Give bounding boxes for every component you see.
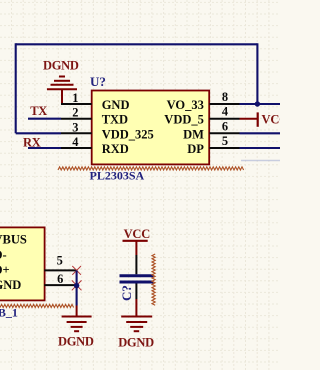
svg-text:VDD_325: VDD_325 <box>102 127 154 141</box>
pin 3 stub (VDD_325) <box>61 132 92 134</box>
pin 2 stub (TXD) <box>61 118 92 120</box>
compile-error squiggle under USB_1 <box>0 304 74 307</box>
svg-text:DP: DP <box>187 142 204 156</box>
power port VCC bar <box>257 112 259 126</box>
power stem VCC down <box>135 241 137 255</box>
svg-text:VCC: VCC <box>124 227 151 241</box>
junction: pin 6 / vertical wire <box>74 283 79 288</box>
capacitor C? top plate <box>120 274 154 277</box>
compile-error squiggle under U? <box>58 167 244 170</box>
svg-text:5: 5 <box>57 254 63 268</box>
pin 8 stub (VO_33) <box>209 103 239 105</box>
svg-text:D-: D- <box>0 248 7 262</box>
svg-text:U?: U? <box>90 74 106 89</box>
ground stem (left DGND) <box>76 306 78 317</box>
pin 4 stub (RXD) <box>61 147 92 149</box>
capacitor C? bottom pin <box>135 284 137 300</box>
svg-text:4: 4 <box>222 105 228 119</box>
svg-text:USB_1: USB_1 <box>0 306 18 320</box>
faint guide line right of DP <box>241 160 280 162</box>
wire pin8 to junction <box>240 103 257 105</box>
svg-text:DGND: DGND <box>58 334 94 348</box>
svg-text:VBUS: VBUS <box>0 233 27 247</box>
svg-text:5: 5 <box>222 134 228 148</box>
svg-text:RXD: RXD <box>102 142 129 156</box>
capacitor C? top pin <box>135 255 137 274</box>
wire DP to sheet edge <box>240 147 281 149</box>
wire: net VO_33 right vertical down to pin 8 <box>256 43 258 104</box>
svg-text:D+: D+ <box>0 263 10 277</box>
connector USB_1 body (clipped at left sheet edge) <box>0 227 45 300</box>
svg-text:TX: TX <box>30 104 47 118</box>
pin 5 stub (DP) <box>209 147 239 149</box>
svg-text:4: 4 <box>72 135 78 149</box>
svg-text:DM: DM <box>183 127 204 141</box>
wire pin6 down to ground <box>76 285 78 305</box>
svg-text:VDD_5: VDD_5 <box>164 113 204 127</box>
compile-error squiggle right of C? <box>152 254 155 305</box>
svg-text:DGND: DGND <box>43 59 79 73</box>
pin 1 stub (GND) <box>61 103 92 105</box>
wire DM to sheet edge <box>240 132 281 134</box>
pin 6 stub (connector) <box>44 284 76 286</box>
wire: net VO_33 top horizontal <box>16 43 258 45</box>
wire pin5 down to pin6 <box>76 270 78 285</box>
capacitor C? bottom plate <box>120 281 154 284</box>
svg-text:TXD: TXD <box>102 113 128 127</box>
svg-text:6: 6 <box>222 119 228 133</box>
svg-text:8: 8 <box>222 90 228 104</box>
svg-text:C?: C? <box>119 285 134 301</box>
pin 6 stub (DM) <box>209 132 239 134</box>
no-ERC cross at pin 6 <box>72 280 82 290</box>
wire net TX <box>28 118 61 120</box>
svg-text:3: 3 <box>72 120 78 134</box>
svg-text:GND: GND <box>0 278 21 292</box>
pin 5 stub (connector) <box>44 269 76 271</box>
pin 4 stub (VDD_5) <box>209 118 239 120</box>
svg-text:RX: RX <box>23 135 41 149</box>
svg-text:2: 2 <box>72 106 78 120</box>
svg-text:DGND: DGND <box>118 335 154 349</box>
ground DGND bottom-left <box>62 317 92 332</box>
svg-text:1: 1 <box>72 91 78 105</box>
svg-text:GND: GND <box>102 98 130 112</box>
wire net RX <box>28 147 61 149</box>
IC U? PL2303SA body <box>92 91 210 165</box>
svg-text:VCC: VCC <box>262 113 281 127</box>
svg-text:VO_33: VO_33 <box>167 98 204 112</box>
junction: pin 8 / vertical wire <box>255 101 260 106</box>
ground DGND top (flipped, bars above stem) <box>47 77 77 105</box>
wire: horizontal to pin 3 (VDD_325) <box>16 132 61 134</box>
no-ERC cross at pin 5 <box>72 266 81 275</box>
wire VDD_5 to VCC port <box>240 118 258 120</box>
ground DGND bottom-right <box>121 317 152 332</box>
power port VCC bar (capacitor) <box>123 240 148 242</box>
svg-text:6: 6 <box>57 272 63 286</box>
svg-text:PL2303SA: PL2303SA <box>90 169 145 183</box>
wire: net VO_33 continues right off sheet <box>257 103 280 105</box>
wire: net VO_33 left vertical down to pin 3 row <box>15 43 17 133</box>
ground stem (right DGND) <box>135 299 137 317</box>
